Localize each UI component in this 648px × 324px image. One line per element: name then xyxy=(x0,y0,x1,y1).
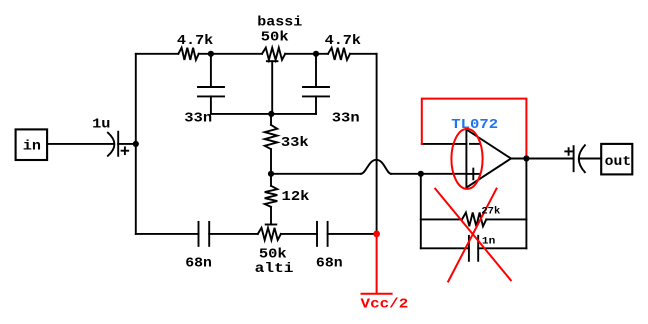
svg-text:50k: 50k xyxy=(261,30,289,46)
svg-text:4.7k: 4.7k xyxy=(325,33,361,49)
svg-text:33k: 33k xyxy=(281,135,309,151)
svg-text:in: in xyxy=(23,138,41,154)
svg-text:68n: 68n xyxy=(185,256,212,272)
svg-text:1u: 1u xyxy=(92,117,110,133)
svg-text:27k: 27k xyxy=(481,205,500,217)
svg-text:out: out xyxy=(605,154,632,170)
svg-text:alti: alti xyxy=(255,261,294,277)
svg-text:12k: 12k xyxy=(282,189,310,205)
svg-text:Vcc/2: Vcc/2 xyxy=(361,296,409,312)
svg-text:TL072: TL072 xyxy=(451,117,498,133)
svg-text:4.7k: 4.7k xyxy=(177,33,213,49)
svg-text:bassi: bassi xyxy=(257,14,302,30)
svg-text:33n: 33n xyxy=(332,111,360,127)
svg-text:1n: 1n xyxy=(482,236,495,248)
svg-text:68n: 68n xyxy=(316,256,343,272)
svg-text:33n: 33n xyxy=(184,111,212,127)
